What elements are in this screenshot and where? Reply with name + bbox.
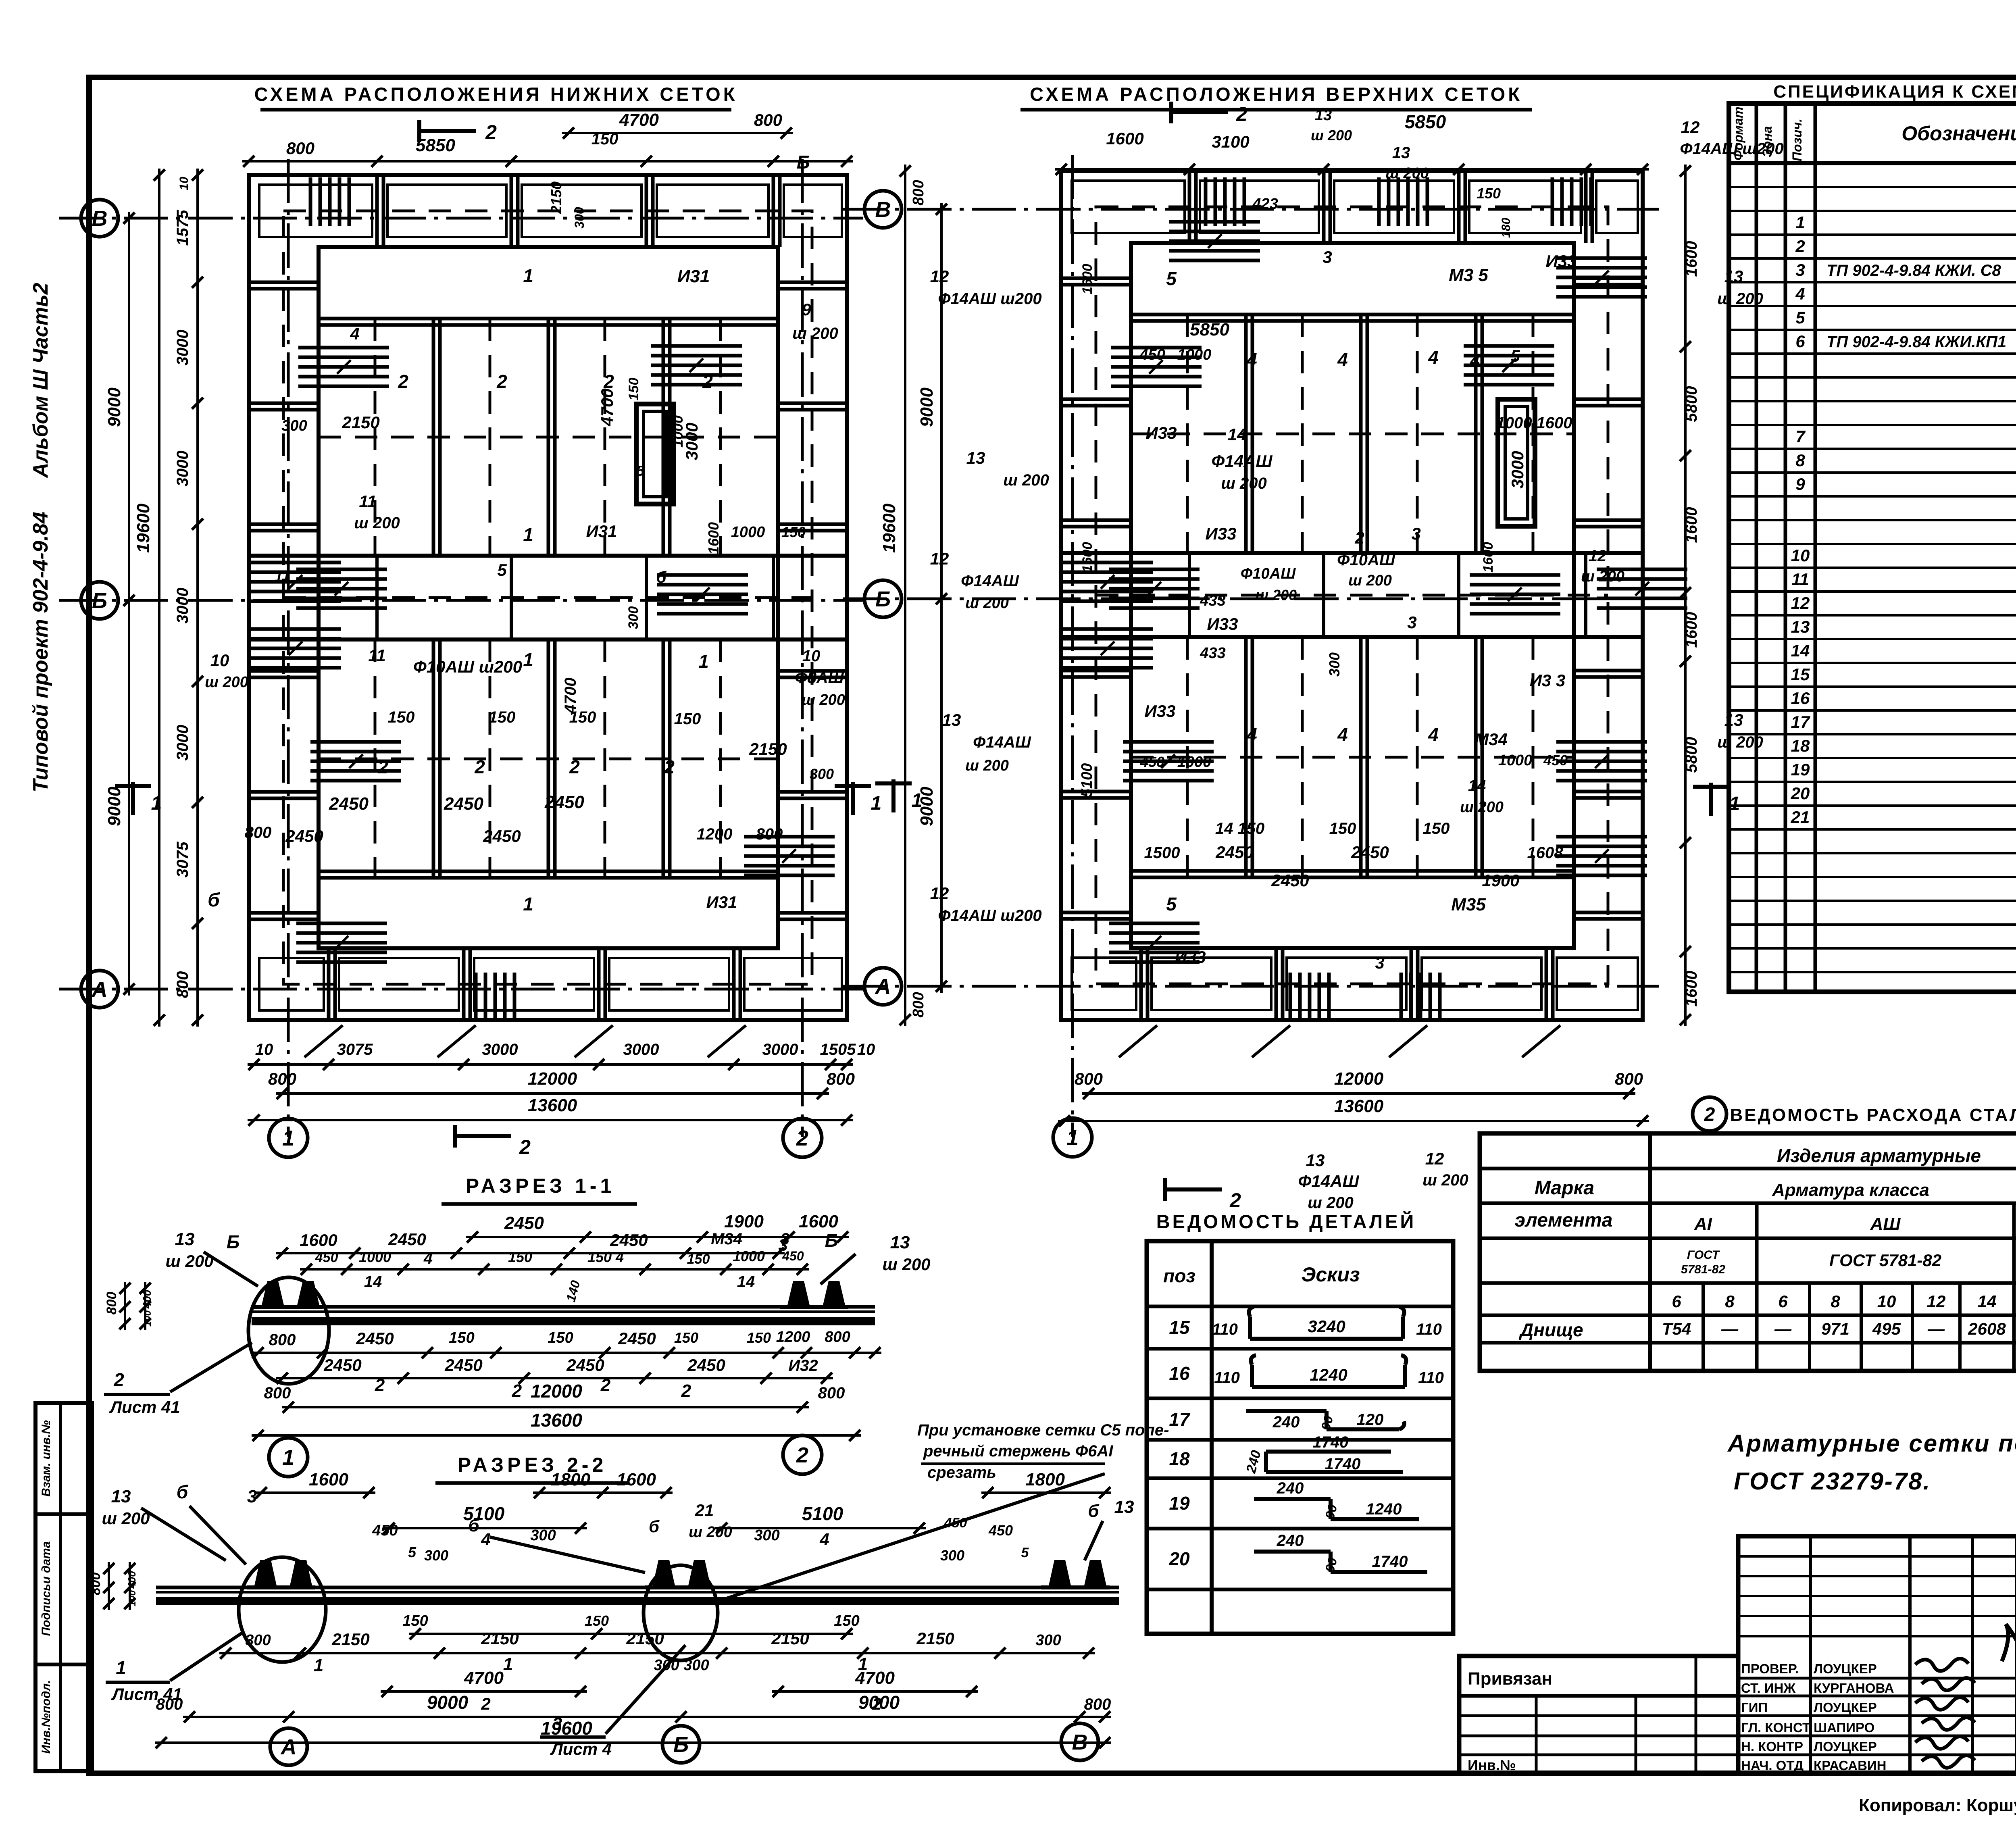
svg-text:5781-82: 5781-82: [1681, 1263, 1725, 1276]
svg-text:12: 12: [1681, 118, 1700, 137]
svg-text:2150: 2150: [548, 181, 564, 214]
svg-text:15: 15: [1791, 665, 1810, 684]
svg-text:ГИП: ГИП: [1741, 1700, 1768, 1715]
svg-text:13600: 13600: [528, 1096, 577, 1115]
svg-text:150: 150: [489, 708, 516, 726]
svg-text:13600: 13600: [531, 1410, 582, 1431]
svg-text:300: 300: [626, 606, 641, 629]
svg-text:1600: 1600: [309, 1470, 348, 1489]
svg-text:2450: 2450: [388, 1230, 426, 1249]
svg-text:2: 2: [375, 1375, 385, 1395]
svg-text:Ф10АШ ш200: Ф10АШ ш200: [413, 657, 522, 676]
svg-text:ш 200: ш 200: [102, 1509, 150, 1528]
svg-text:1600: 1600: [300, 1231, 337, 1250]
svg-text:1: 1: [523, 649, 533, 670]
svg-text:800: 800: [269, 1331, 296, 1349]
svg-text:НАЧ. ОТД: НАЧ. ОТД: [1741, 1758, 1804, 1773]
svg-text:1: 1: [871, 793, 882, 814]
svg-text:2: 2: [569, 756, 580, 777]
svg-text:Подписьи дата: Подписьи дата: [40, 1541, 53, 1636]
svg-text:16: 16: [1169, 1363, 1190, 1384]
svg-text:1600: 1600: [799, 1212, 838, 1231]
svg-text:1600: 1600: [1080, 264, 1095, 294]
svg-text:Позич.: Позич.: [1790, 119, 1804, 161]
svg-text:АШ: АШ: [1870, 1214, 1901, 1234]
svg-text:450: 450: [372, 1522, 398, 1539]
svg-text:1740: 1740: [1372, 1553, 1408, 1571]
svg-text:ГОСТ 23279-78.: ГОСТ 23279-78.: [1734, 1468, 1931, 1495]
svg-text:И31: И31: [677, 267, 710, 286]
svg-text:б: б: [177, 1481, 189, 1502]
svg-text:Ф14АШ ш200: Ф14АШ ш200: [938, 290, 1041, 308]
svg-text:1900: 1900: [724, 1212, 764, 1231]
svg-text:ш 200: ш 200: [1422, 1171, 1468, 1189]
svg-text:800: 800: [88, 1573, 103, 1596]
svg-text:5800: 5800: [1683, 737, 1700, 773]
svg-text:1800: 1800: [1025, 1470, 1065, 1489]
svg-text:4700: 4700: [598, 388, 616, 426]
svg-text:И33: И33: [1206, 524, 1237, 543]
svg-text:800: 800: [104, 1292, 119, 1315]
svg-text:ГЛ. КОНСТ: ГЛ. КОНСТ: [1741, 1720, 1810, 1735]
svg-text:240: 240: [1277, 1532, 1304, 1550]
svg-text:4700: 4700: [619, 110, 659, 130]
svg-text:12: 12: [1425, 1149, 1444, 1168]
svg-text:АI: АI: [1694, 1214, 1712, 1234]
svg-text:4700: 4700: [464, 1668, 504, 1688]
svg-text:2: 2: [681, 1381, 691, 1401]
svg-text:ш 200: ш 200: [1460, 799, 1504, 816]
svg-text:14: 14: [364, 1273, 382, 1291]
svg-text:3: 3: [778, 1235, 787, 1254]
svg-text:СПЕЦИФИКАЦИЯ К СХЕМАМ РАСПОЛ: СПЕЦИФИКАЦИЯ К СХЕМАМ РАСПОЛОЖЕНИЯ АРМАТ…: [1773, 81, 2016, 102]
svg-text:13: 13: [1791, 617, 1810, 636]
svg-text:РАЗРЕЗ 1-1: РАЗРЕЗ 1-1: [466, 1175, 615, 1197]
svg-text:800: 800: [174, 971, 192, 998]
svg-text:2150: 2150: [916, 1629, 954, 1648]
svg-text:Б: Б: [227, 1231, 240, 1252]
svg-text:19600: 19600: [133, 503, 153, 553]
svg-text:2: 2: [113, 1369, 124, 1390]
svg-text:2450: 2450: [285, 827, 323, 846]
svg-text:6: 6: [1795, 332, 1805, 351]
svg-text:ЛОУЦКЕР: ЛОУЦКЕР: [1814, 1700, 1877, 1715]
svg-text:150: 150: [747, 1329, 771, 1346]
svg-text:12: 12: [930, 267, 949, 286]
svg-text:3000: 3000: [174, 330, 192, 366]
svg-text:11: 11: [368, 646, 386, 665]
svg-text:3000: 3000: [1508, 451, 1527, 488]
svg-text:150: 150: [1329, 820, 1356, 837]
svg-text:В: В: [1072, 1730, 1088, 1754]
svg-text:800: 800: [1615, 1069, 1643, 1088]
svg-text:2450: 2450: [1215, 843, 1253, 862]
svg-text:300: 300: [530, 1527, 556, 1544]
svg-text:2450: 2450: [504, 1213, 544, 1233]
svg-text:ш 200: ш 200: [205, 674, 248, 691]
svg-text:2: 2: [1236, 103, 1248, 125]
svg-text:1000: 1000: [731, 524, 765, 541]
svg-text:800: 800: [264, 1384, 291, 1402]
svg-text:ш 200: ш 200: [792, 325, 838, 342]
svg-text:5: 5: [408, 1544, 417, 1560]
svg-text:1: 1: [698, 651, 709, 672]
svg-text:6: 6: [1778, 1292, 1788, 1311]
svg-text:1: 1: [1795, 213, 1805, 232]
svg-text:элемента: элемента: [1515, 1210, 1613, 1231]
svg-text:5850: 5850: [1405, 111, 1446, 132]
svg-text:8: 8: [1725, 1292, 1735, 1311]
svg-text:А: А: [91, 977, 108, 1002]
svg-text:Зона: Зона: [1760, 126, 1774, 157]
svg-text:9000: 9000: [917, 387, 937, 427]
svg-text:4: 4: [1428, 347, 1439, 368]
svg-text:Типовой проект 902-4-9.84: Типовой проект 902-4-9.84: [29, 512, 52, 792]
svg-text:9000: 9000: [104, 787, 124, 826]
svg-text:433: 433: [1200, 592, 1225, 609]
svg-text:1600: 1600: [1683, 507, 1700, 543]
svg-text:10: 10: [210, 651, 229, 670]
svg-text:ш 200: ш 200: [1221, 475, 1266, 492]
svg-text:110: 110: [1214, 1369, 1240, 1387]
svg-text:150: 150: [548, 1329, 573, 1346]
svg-text:—: —: [1927, 1319, 1945, 1338]
svg-text:800: 800: [818, 1384, 845, 1402]
svg-text:Взам. инв.№: Взам. инв.№: [40, 1420, 53, 1497]
svg-text:1: 1: [282, 1446, 294, 1470]
svg-text:Альбом Ш Часть2: Альбом Ш Часть2: [29, 283, 52, 479]
svg-text:3: 3: [1375, 953, 1384, 972]
svg-text:300: 300: [810, 766, 834, 782]
svg-text:2450: 2450: [444, 794, 483, 814]
svg-text:1240: 1240: [1310, 1365, 1347, 1384]
svg-text:М34: М34: [1475, 730, 1508, 749]
svg-text:Ф14АШ: Ф14АШ: [1212, 452, 1273, 471]
svg-text:8: 8: [1795, 451, 1805, 470]
svg-text:10: 10: [255, 1041, 273, 1058]
svg-text:Арматурные сетки поз. 1, 2,: Арматурные сетки поз. 1, 2, 4, 5 выполне…: [1727, 1430, 2016, 1457]
svg-text:423: 423: [1252, 196, 1278, 212]
svg-text:15: 15: [1169, 1317, 1190, 1338]
svg-text:300: 300: [281, 417, 307, 434]
svg-text:150: 150: [781, 524, 806, 540]
svg-text:ЛОУЦКЕР: ЛОУЦКЕР: [1814, 1661, 1877, 1676]
svg-text:ш 200: ш 200: [1256, 587, 1297, 603]
svg-text:21: 21: [1791, 808, 1810, 827]
svg-text:1: 1: [912, 790, 923, 811]
svg-text:КУРГАНОВА: КУРГАНОВА: [1814, 1681, 1894, 1696]
svg-text:150: 150: [1423, 820, 1450, 837]
svg-text:140: 140: [563, 1279, 583, 1304]
svg-text:1000: 1000: [359, 1249, 391, 1265]
svg-text:Б: Б: [673, 1733, 689, 1757]
svg-text:2150: 2150: [771, 1629, 809, 1648]
svg-text:150: 150: [834, 1612, 859, 1629]
svg-text:Ф10АШ: Ф10АШ: [1337, 551, 1395, 569]
svg-text:И32: И32: [788, 1357, 818, 1375]
svg-text:2: 2: [1795, 237, 1805, 256]
svg-text:14: 14: [737, 1273, 755, 1291]
svg-text:5: 5: [1795, 308, 1805, 327]
svg-text:16: 16: [1791, 689, 1810, 708]
svg-text:450: 450: [988, 1522, 1013, 1539]
svg-text:1600: 1600: [1080, 542, 1095, 573]
svg-text:4: 4: [1428, 724, 1439, 745]
svg-text:Ф14АШ: Ф14АШ: [961, 572, 1019, 590]
svg-text:14: 14: [1978, 1292, 1997, 1311]
svg-text:1: 1: [1066, 1126, 1079, 1150]
svg-text:1200: 1200: [697, 825, 733, 843]
svg-text:12: 12: [930, 549, 949, 568]
svg-text:800: 800: [268, 1069, 296, 1088]
svg-text:Т54: Т54: [1662, 1319, 1691, 1338]
svg-text:13: 13: [111, 1487, 131, 1506]
svg-text:300: 300: [424, 1547, 448, 1564]
svg-text:Лист 41: Лист 41: [109, 1398, 180, 1416]
svg-text:ВЕДОМОСТЬ РАСХОДА СТАЛИ НА ЭЛ: ВЕДОМОСТЬ РАСХОДА СТАЛИ НА ЭЛЕМЕНТ , КГ: [1730, 1105, 2016, 1125]
svg-text:2450: 2450: [1271, 871, 1309, 890]
svg-text:13: 13: [942, 710, 961, 729]
svg-text:150: 150: [687, 1252, 710, 1267]
svg-text:1600: 1600: [1106, 129, 1143, 148]
svg-text:150: 150: [508, 1249, 532, 1265]
svg-text:100: 100: [127, 1590, 138, 1606]
svg-text:2: 2: [519, 1136, 531, 1158]
svg-text:Обозначение: Обозначение: [1901, 122, 2016, 145]
svg-text:ТП 902-4-9.84 КЖИ.КП1: ТП 902-4-9.84 КЖИ.КП1: [1826, 333, 2006, 351]
svg-text:2150: 2150: [331, 1630, 369, 1649]
svg-text:12000: 12000: [531, 1381, 582, 1402]
svg-text:поз: поз: [1163, 1265, 1195, 1286]
svg-text:3: 3: [1322, 248, 1332, 267]
svg-text:3: 3: [1795, 260, 1805, 279]
svg-text:5: 5: [1166, 268, 1177, 289]
svg-text:3000: 3000: [174, 588, 192, 624]
svg-text:17: 17: [1169, 1409, 1191, 1430]
svg-text:1: 1: [523, 265, 533, 286]
svg-text:13600: 13600: [1334, 1096, 1384, 1116]
svg-text:Привязан: Привязан: [1468, 1669, 1552, 1689]
svg-text:4: 4: [1246, 724, 1257, 745]
svg-text:10: 10: [802, 647, 821, 665]
svg-text:400: 400: [126, 1571, 138, 1589]
svg-text:б: б: [1088, 1501, 1100, 1521]
svg-text:М35: М35: [1451, 895, 1486, 914]
svg-text:240: 240: [1277, 1479, 1304, 1497]
svg-text:В: В: [92, 206, 108, 231]
svg-text:1505: 1505: [820, 1041, 856, 1058]
svg-text:срезать: срезать: [927, 1464, 996, 1481]
svg-text:400: 400: [141, 1289, 153, 1309]
svg-text:100: 100: [142, 1310, 153, 1327]
svg-text:3100: 3100: [1212, 132, 1249, 151]
svg-text:9: 9: [1795, 475, 1805, 494]
svg-text:5100: 5100: [1079, 763, 1095, 798]
svg-text:10: 10: [1877, 1292, 1896, 1311]
svg-text:ш 200: ш 200: [1348, 572, 1392, 589]
svg-text:12: 12: [1589, 547, 1607, 565]
svg-text:А: А: [875, 975, 891, 999]
svg-text:1: 1: [523, 524, 533, 545]
svg-text:12: 12: [1927, 1292, 1946, 1311]
svg-text:2450: 2450: [566, 1356, 604, 1375]
svg-text:1: 1: [116, 1657, 126, 1678]
svg-text:9000: 9000: [427, 1692, 469, 1713]
svg-text:б: б: [468, 1516, 480, 1535]
svg-text:21: 21: [695, 1501, 714, 1520]
svg-text:3: 3: [1411, 524, 1420, 543]
svg-text:4: 4: [1337, 724, 1348, 745]
svg-text:8: 8: [1831, 1292, 1840, 1311]
svg-text:2450: 2450: [329, 794, 369, 814]
svg-text:М3 5: М3 5: [1449, 265, 1488, 285]
svg-text:13: 13: [1306, 1151, 1325, 1170]
svg-text:14 150: 14 150: [1215, 820, 1264, 837]
svg-text:5100: 5100: [802, 1503, 843, 1524]
svg-text:800: 800: [1084, 1696, 1111, 1713]
svg-text:И33: И33: [1145, 702, 1176, 721]
svg-text:110: 110: [1418, 1369, 1444, 1387]
svg-text:3000: 3000: [174, 725, 192, 761]
svg-text:1600: 1600: [1683, 241, 1700, 277]
svg-text:19: 19: [1169, 1493, 1190, 1514]
svg-text:Б: Б: [825, 1230, 838, 1251]
svg-text:2: 2: [496, 371, 507, 392]
svg-text:12: 12: [1791, 594, 1810, 612]
svg-text:5: 5: [636, 462, 645, 479]
svg-text:И33: И33: [1146, 423, 1177, 442]
svg-text:300: 300: [940, 1547, 964, 1564]
svg-text:2: 2: [485, 121, 497, 144]
svg-text:Эскиз: Эскиз: [1301, 1263, 1360, 1286]
svg-text:2450: 2450: [323, 1356, 361, 1375]
svg-text:800: 800: [825, 1329, 850, 1346]
svg-text:4: 4: [1337, 349, 1348, 370]
svg-text:150: 150: [674, 710, 701, 728]
svg-text:ш 200: ш 200: [1308, 1194, 1353, 1212]
svg-text:ТП 902-4-9.84 КЖИ. С8: ТП 902-4-9.84 КЖИ. С8: [1826, 262, 2001, 279]
svg-text:ш 200: ш 200: [1311, 127, 1352, 144]
svg-text:800: 800: [754, 110, 782, 129]
svg-text:Ф14АШ: Ф14АШ: [1298, 1172, 1360, 1191]
svg-text:ШАПИРО: ШАПИРО: [1814, 1720, 1874, 1735]
svg-text:Формат: Формат: [1731, 106, 1745, 160]
svg-text:1600: 1600: [1683, 971, 1700, 1007]
svg-text:10: 10: [177, 177, 191, 190]
svg-text:2150: 2150: [481, 1629, 519, 1648]
svg-text:1740: 1740: [1313, 1433, 1349, 1451]
svg-text:433: 433: [1200, 645, 1225, 662]
svg-text:В: В: [875, 198, 891, 222]
svg-text:2450: 2450: [544, 792, 584, 812]
svg-text:150: 150: [449, 1329, 474, 1346]
svg-text:10: 10: [857, 1041, 875, 1058]
svg-text:3240: 3240: [1308, 1317, 1345, 1336]
svg-text:И33: И33: [1207, 614, 1238, 633]
svg-text:300: 300: [572, 207, 587, 229]
svg-text:5: 5: [1021, 1545, 1029, 1560]
svg-text:Ф14АШ: Ф14АШ: [973, 733, 1031, 751]
svg-text:ш 200: ш 200: [965, 595, 1009, 612]
svg-text:450: 450: [315, 1250, 338, 1265]
svg-text:4: 4: [350, 324, 359, 343]
svg-text:2450: 2450: [1351, 843, 1389, 862]
svg-text:800: 800: [756, 825, 783, 843]
svg-text:4700: 4700: [855, 1668, 895, 1688]
svg-text:1740: 1740: [1325, 1455, 1361, 1473]
svg-text:17: 17: [1791, 712, 1810, 731]
svg-text:Б: Б: [875, 587, 891, 611]
svg-text:3000: 3000: [482, 1041, 518, 1058]
svg-text:150: 150: [402, 1612, 428, 1629]
svg-text:2450: 2450: [610, 1231, 648, 1250]
svg-text:ш 200: ш 200: [802, 692, 845, 708]
svg-text:13: 13: [1315, 107, 1332, 124]
svg-text:12: 12: [930, 884, 949, 903]
svg-text:3075: 3075: [337, 1041, 373, 1058]
svg-text:300: 300: [754, 1527, 779, 1544]
svg-text:13: 13: [966, 448, 985, 467]
svg-text:300: 300: [245, 1632, 271, 1649]
svg-text:150: 150: [388, 708, 415, 726]
svg-text:1575: 1575: [174, 210, 192, 246]
svg-text:3: 3: [1407, 613, 1416, 632]
svg-text:3000: 3000: [682, 423, 701, 460]
svg-text:ГОСТ 5781-82: ГОСТ 5781-82: [1829, 1251, 1941, 1270]
svg-text:2: 2: [474, 756, 485, 777]
svg-text:Арматура класса: Арматура класса: [1772, 1180, 1929, 1200]
svg-text:ш 200: ш 200: [354, 514, 400, 532]
svg-text:20: 20: [1791, 784, 1810, 803]
svg-text:М34: М34: [711, 1230, 742, 1248]
svg-text:800: 800: [245, 824, 272, 842]
svg-text:4: 4: [1795, 284, 1805, 303]
svg-text:12000: 12000: [1334, 1069, 1384, 1089]
svg-text:3000: 3000: [762, 1041, 798, 1058]
svg-text:2: 2: [512, 1381, 522, 1401]
svg-text:ЛОУЦКЕР: ЛОУЦКЕР: [1814, 1739, 1877, 1754]
svg-text:—: —: [1721, 1319, 1739, 1338]
svg-text:10: 10: [1791, 546, 1810, 565]
svg-text:13: 13: [1392, 144, 1410, 162]
svg-text:110: 110: [1212, 1321, 1238, 1338]
svg-text:А: А: [280, 1735, 297, 1759]
svg-text:При установке сетки С5 попе-: При установке сетки С5 попе-: [917, 1421, 1169, 1439]
svg-text:6: 6: [1672, 1292, 1681, 1311]
svg-text:150: 150: [1477, 185, 1501, 202]
svg-text:2: 2: [398, 371, 408, 392]
svg-text:2450: 2450: [483, 827, 521, 846]
svg-text:800: 800: [827, 1069, 855, 1088]
svg-text:1500: 1500: [1144, 844, 1180, 862]
svg-text:2: 2: [796, 1126, 808, 1150]
svg-text:2: 2: [1704, 1104, 1715, 1125]
svg-text:Инв.№: Инв.№: [1468, 1757, 1516, 1773]
svg-text:И3 3: И3 3: [1530, 671, 1566, 690]
svg-text:ГОСТ: ГОСТ: [1687, 1248, 1720, 1262]
svg-text:2: 2: [600, 1375, 611, 1395]
svg-text:3000: 3000: [174, 451, 192, 487]
svg-text:Н. КОНТР: Н. КОНТР: [1741, 1739, 1803, 1754]
svg-text:2150: 2150: [749, 739, 787, 758]
svg-text:800: 800: [910, 992, 927, 1017]
svg-text:3075: 3075: [174, 842, 192, 878]
svg-text:б: б: [649, 1517, 660, 1536]
svg-text:9: 9: [802, 300, 811, 319]
svg-text:Изделия арматурные: Изделия арматурные: [1777, 1145, 1981, 1166]
svg-text:Лист 4: Лист 4: [550, 1739, 612, 1758]
svg-text:3: 3: [552, 1714, 562, 1734]
